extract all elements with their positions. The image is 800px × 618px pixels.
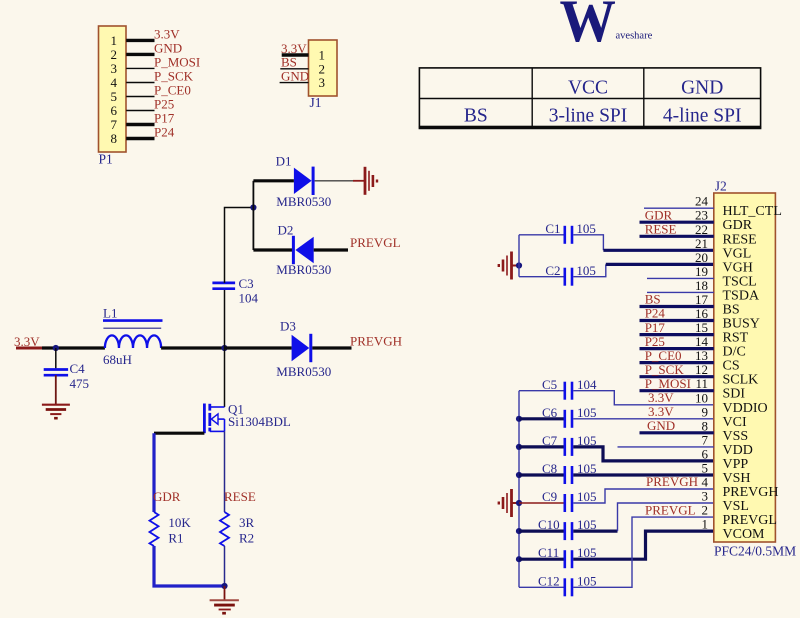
capacitor C9 105 [519, 489, 597, 512]
node bus junction C8 [516, 472, 522, 478]
svg-text:VGL: VGL [723, 246, 752, 261]
svg-text:GND: GND [281, 68, 309, 83]
node 3.3V input [14, 334, 42, 349]
J2 pin names [723, 204, 782, 542]
svg-text:C4: C4 [70, 361, 86, 376]
capacitor C1 105 [519, 221, 596, 244]
svg-text:P_CE0: P_CE0 [154, 83, 191, 98]
svg-text:MBR0530: MBR0530 [276, 364, 331, 379]
svg-text:SDI: SDI [723, 387, 746, 402]
wire J2 pin 22 RESE [640, 222, 714, 237]
wire C1/C2 left bus [518, 235, 520, 277]
wire C11 to J2 pin 1 [573, 531, 714, 559]
svg-text:J1: J1 [310, 95, 322, 110]
svg-text:P_SCK: P_SCK [154, 69, 194, 84]
svg-text:20: 20 [695, 250, 708, 265]
svg-text:24: 24 [695, 194, 709, 209]
svg-text:VCC: VCC [568, 78, 608, 99]
wire J2 pin 15 P17 [640, 320, 714, 335]
svg-text:D3: D3 [280, 319, 296, 334]
transistor Q1 Si1304BDL [204, 401, 291, 433]
wire Q1 gate stub [154, 432, 204, 435]
svg-text:9: 9 [702, 404, 709, 419]
connector J1 [309, 40, 338, 110]
svg-text:12: 12 [695, 362, 708, 377]
svg-text:VPP: VPP [723, 457, 749, 472]
node bus junction C6 [516, 416, 522, 422]
wire J2 pin 7 stub [618, 446, 714, 448]
svg-text:17: 17 [695, 292, 709, 307]
wire J1 pin 3 (GND) [280, 68, 310, 83]
svg-text:VSH: VSH [723, 471, 751, 486]
svg-text:C1: C1 [545, 221, 560, 236]
J2 pin numbers [695, 194, 709, 532]
svg-text:14: 14 [695, 334, 709, 349]
capacitor C3 104 [212, 276, 258, 306]
svg-text:21: 21 [695, 236, 708, 251]
svg-text:3.3V: 3.3V [281, 41, 307, 56]
svg-text:7: 7 [702, 432, 709, 447]
wire C5-C12 left bus [518, 391, 520, 588]
wire C3 up to D1/D2 branch [225, 208, 254, 283]
svg-text:C10: C10 [538, 517, 560, 532]
svg-text:18: 18 [695, 278, 708, 293]
wire C1 to J2 pin 21 [573, 235, 714, 251]
wire P1 pin 7 (P17) [126, 111, 175, 126]
svg-text:3-line SPI: 3-line SPI [549, 106, 628, 127]
svg-text:13: 13 [695, 348, 708, 363]
svg-text:105: 105 [577, 489, 597, 504]
wire J2 pin 8 GND [640, 418, 714, 433]
svg-text:C5: C5 [542, 377, 557, 392]
wire C9 to J2 pin 4 [573, 489, 714, 503]
svg-text:Si1304BDL: Si1304BDL [228, 414, 291, 429]
resistor R1 10K [150, 512, 192, 546]
node C1/C2 ground junction [516, 262, 522, 268]
wire junction to C4 [55, 348, 57, 368]
node main junction [221, 345, 227, 351]
svg-text:P1: P1 [99, 152, 113, 167]
capacitor C10 105 [519, 517, 597, 540]
waveshare logo [560, 0, 653, 54]
ground below R2 [210, 600, 239, 613]
wire to D2 cathode [253, 248, 293, 251]
svg-text:PREVGH: PREVGH [646, 474, 698, 489]
svg-text:PREVGL: PREVGL [645, 502, 696, 517]
svg-text:C3: C3 [239, 276, 254, 291]
wire P1 pin 1 (3.3V) [126, 26, 180, 41]
svg-text:C9: C9 [542, 489, 557, 504]
svg-text:C8: C8 [542, 461, 557, 476]
connector J2 [714, 179, 796, 559]
wire J2 pin 14 P25 [640, 334, 714, 349]
svg-text:3R: 3R [239, 515, 255, 530]
svg-text:PFC24/0.5MM: PFC24/0.5MM [714, 544, 796, 559]
svg-text:475: 475 [70, 376, 90, 391]
svg-text:P24: P24 [645, 306, 666, 321]
node C4 tap junction [53, 345, 59, 351]
svg-text:P_CE0: P_CE0 [645, 348, 682, 363]
svg-text:MBR0530: MBR0530 [276, 262, 331, 277]
svg-text:P24: P24 [154, 125, 175, 140]
svg-text:L1: L1 [103, 306, 117, 321]
wire P1 pin 4 (P_SCK) [126, 69, 193, 84]
wire node to ground [224, 586, 226, 600]
svg-text:C7: C7 [542, 433, 558, 448]
wire junction to D3 [225, 346, 292, 349]
svg-text:VCOM: VCOM [723, 527, 766, 542]
svg-text:PREVGL: PREVGL [723, 513, 777, 528]
capacitor C7 105 [519, 433, 597, 456]
wire J2 pin 11 P_MOSI [640, 376, 714, 391]
svg-text:15: 15 [695, 320, 708, 335]
ground below C4 [42, 405, 70, 419]
svg-text:68uH: 68uH [103, 352, 132, 367]
wire J2 pin 12 P_SCK [640, 362, 714, 377]
capacitor C4 475 [44, 361, 89, 391]
svg-text:VSS: VSS [723, 429, 749, 444]
svg-text:W: W [560, 0, 616, 54]
wire C7 to J2 pin 6 [573, 447, 714, 461]
svg-text:R1: R1 [168, 531, 183, 546]
svg-text:BS: BS [281, 55, 297, 70]
svg-text:C11: C11 [538, 545, 559, 560]
wire C8 to J2 pin 5 [573, 473, 714, 476]
svg-text:PREVGH: PREVGH [350, 334, 402, 349]
node bus junction C7 [516, 444, 522, 450]
node bus junction C10 [516, 528, 522, 534]
svg-text:1: 1 [319, 48, 326, 63]
wire P1 pin 3 (P_MOSI) [126, 54, 200, 69]
wire J2 pin 24 stub [644, 207, 714, 209]
svg-text:8: 8 [702, 418, 709, 433]
wire J1 pin 1 (3.3V) [281, 41, 309, 56]
svg-text:105: 105 [576, 263, 596, 278]
svg-text:C6: C6 [542, 405, 558, 420]
svg-text:P17: P17 [154, 111, 175, 126]
svg-text:VDD: VDD [723, 443, 753, 458]
svg-text:RST: RST [723, 331, 749, 346]
svg-text:BUSY: BUSY [723, 317, 760, 332]
svg-text:BS: BS [723, 303, 740, 318]
svg-text:23: 23 [695, 208, 708, 223]
svg-text:RESE: RESE [224, 489, 256, 504]
wire junction to Q1 drain [224, 348, 226, 407]
wire J1 pin 2 (BS) [280, 55, 308, 70]
svg-text:RESE: RESE [723, 232, 757, 247]
svg-text:5: 5 [702, 461, 709, 476]
svg-text:P_SCK: P_SCK [645, 362, 685, 377]
svg-text:CS: CS [723, 359, 740, 374]
wire P1 pin 8 (P24) [126, 125, 175, 140]
svg-text:22: 22 [695, 222, 708, 237]
svg-text:MBR0530: MBR0530 [276, 194, 331, 209]
wire junction to C3 [224, 289, 226, 348]
svg-text:8: 8 [111, 131, 118, 146]
svg-text:2: 2 [702, 503, 709, 518]
svg-text:TSDA: TSDA [723, 288, 760, 303]
svg-text:C12: C12 [538, 573, 560, 588]
capacitor C8 105 [519, 461, 597, 484]
svg-text:11: 11 [695, 376, 708, 391]
capacitor C2 105 [519, 263, 596, 286]
svg-text:PREVGH: PREVGH [723, 485, 779, 500]
svg-text:RESE: RESE [645, 222, 677, 237]
ground left of C9 (sideways) [499, 489, 519, 517]
ground left of C1/C2 (sideways) [499, 252, 519, 280]
svg-text:GDR: GDR [153, 489, 181, 504]
svg-text:P17: P17 [645, 320, 666, 335]
svg-text:16: 16 [695, 306, 709, 321]
wire P1 pin 5 (P_CE0) [126, 83, 191, 98]
wire R1 to bottom node [154, 546, 225, 586]
svg-text:2: 2 [319, 61, 326, 76]
svg-text:GDR: GDR [645, 207, 673, 222]
node bus junction C9/ground [516, 500, 522, 506]
svg-text:4: 4 [111, 75, 118, 90]
wire C12 to J2 pin 2 [573, 517, 714, 587]
capacitor C11 105 [519, 545, 597, 568]
svg-text:GDR: GDR [723, 218, 753, 233]
svg-text:C2: C2 [545, 263, 560, 278]
wire J2 pin 17 BS [640, 292, 714, 307]
connector P1 [99, 26, 127, 167]
wire P1 pin 2 (GND) [126, 40, 182, 55]
BS mode table [419, 68, 762, 128]
svg-text:3.3V: 3.3V [648, 404, 674, 419]
svg-text:1: 1 [111, 33, 118, 48]
wire L1 to main junction [161, 346, 224, 349]
svg-text:P_MOSI: P_MOSI [154, 54, 200, 69]
wire D2 to PREVGL [314, 235, 401, 250]
svg-text:104: 104 [239, 290, 259, 305]
wire C5 to J2 pin 10 [573, 391, 714, 405]
svg-text:3: 3 [319, 75, 326, 90]
svg-text:VDDIO: VDDIO [723, 401, 768, 416]
node bottom ground junction [221, 583, 227, 589]
inductor L1 68uH [103, 306, 163, 367]
wire C2 to J2 pin 20 [573, 264, 714, 276]
ground right of D1 (sideways) [365, 167, 377, 195]
svg-text:SCLK: SCLK [723, 373, 759, 388]
wire D3 to PREVGH [312, 334, 402, 349]
capacitor C12 105 [519, 573, 597, 596]
svg-text:10: 10 [695, 390, 708, 405]
svg-text:P_MOSI: P_MOSI [645, 376, 691, 391]
svg-text:3: 3 [111, 61, 118, 76]
svg-text:P25: P25 [154, 97, 174, 112]
svg-text:GND: GND [647, 418, 675, 433]
svg-text:19: 19 [695, 264, 708, 279]
wire Q1 source / RESE net [224, 431, 256, 512]
svg-text:VSL: VSL [723, 499, 749, 514]
svg-text:10K: 10K [168, 515, 191, 530]
node D1/D2 branch junction [250, 204, 256, 210]
svg-text:6: 6 [702, 446, 709, 461]
wire R2 to bottom node [224, 546, 226, 586]
wire to D1 anode [253, 179, 294, 182]
svg-text:GND: GND [681, 78, 723, 99]
wire C10 to J2 pin 3 [573, 503, 714, 531]
svg-text:BS: BS [645, 292, 661, 307]
svg-text:104: 104 [577, 377, 597, 392]
capacitor C5 104 [519, 377, 597, 400]
wire D1-D2 vertical [252, 181, 254, 250]
svg-text:HLT_CTL: HLT_CTL [723, 204, 782, 219]
svg-text:D2: D2 [278, 223, 294, 238]
svg-text:3: 3 [702, 489, 709, 504]
svg-text:D1: D1 [276, 154, 292, 169]
wire J2 pin 23 GDR [640, 207, 714, 222]
svg-text:aveshare: aveshare [616, 31, 653, 42]
svg-text:PREVGL: PREVGL [350, 235, 401, 250]
svg-text:BS: BS [464, 106, 488, 127]
svg-text:105: 105 [577, 573, 597, 588]
svg-text:7: 7 [111, 117, 118, 132]
svg-text:R2: R2 [239, 531, 254, 546]
wire C6 to J2 pin 9 [573, 418, 714, 420]
svg-text:VGH: VGH [723, 260, 753, 275]
svg-text:5: 5 [111, 89, 118, 104]
svg-text:VCI: VCI [723, 415, 747, 430]
svg-text:D/C: D/C [723, 345, 746, 360]
wire J2 pin 18 stub [647, 291, 714, 293]
wire J2 pin 19 stub [647, 277, 714, 279]
wire J2 pin 16 P24 [640, 306, 714, 321]
wire GDR net (gate loop down) [153, 433, 181, 512]
resistor R2 3R [220, 512, 255, 546]
wire 3.3V to L1 [42, 346, 105, 349]
svg-text:P25: P25 [645, 334, 665, 349]
svg-text:4-line SPI: 4-line SPI [663, 106, 742, 127]
svg-text:6: 6 [111, 103, 118, 118]
node bus junction C11 [516, 556, 522, 562]
svg-text:3.3V: 3.3V [648, 390, 674, 405]
svg-text:GND: GND [154, 40, 182, 55]
diode D3 MBR0530 [276, 319, 331, 379]
svg-text:3.3V: 3.3V [154, 26, 180, 41]
wire D1 cathode to ground [315, 180, 364, 182]
wire J2 pin 13 P_CE0 [640, 348, 714, 363]
svg-text:4: 4 [702, 475, 709, 490]
capacitor C6 105 [519, 405, 597, 428]
svg-text:1: 1 [702, 517, 709, 532]
svg-text:J2: J2 [715, 179, 727, 194]
diode D2 MBR0530 [276, 223, 331, 277]
wire P1 pin 6 (P25) [126, 97, 174, 112]
svg-text:105: 105 [576, 221, 596, 236]
svg-text:105: 105 [577, 405, 597, 420]
diode D1 MBR0530 [276, 154, 332, 209]
svg-text:2: 2 [111, 47, 118, 62]
wire C4 to ground [55, 375, 57, 405]
svg-text:TSCL: TSCL [723, 274, 757, 289]
